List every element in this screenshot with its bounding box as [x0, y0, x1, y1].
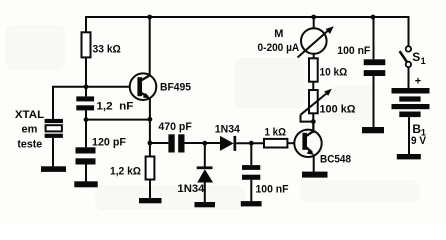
- svg-text:em: em: [22, 124, 38, 136]
- wire row to 470pF: [150, 142, 169, 144]
- svg-text:470 pF: 470 pF: [158, 121, 192, 133]
- transistor Q2 BC548: [294, 130, 321, 157]
- wire BF495 collector to rail: [149, 16, 151, 75]
- svg-text:BF495: BF495: [160, 82, 191, 94]
- ground (battery): [397, 154, 421, 159]
- wire shunt diode to ground: [204, 183, 206, 203]
- resistor 1 kΩ: [264, 139, 287, 148]
- svg-text:BC548: BC548: [320, 154, 351, 166]
- wire pot to BC548 collector: [312, 113, 314, 130]
- transistor Q1 BF495: [130, 73, 157, 100]
- potentiometer 100 kΩ: [301, 89, 332, 122]
- wire crystal to ground: [52, 138, 54, 167]
- wire base line: [53, 86, 130, 88]
- wire 1k to base BC548: [287, 142, 295, 144]
- wire 33k to base line: [85, 57, 87, 96]
- ground (decoupling cap): [362, 127, 384, 133]
- svg-text:1,2 kΩ: 1,2 kΩ: [110, 166, 141, 178]
- resistor 10 kΩ: [309, 58, 318, 81]
- wire top supply rail: [86, 16, 409, 18]
- svg-text:100 nF: 100 nF: [337, 45, 370, 57]
- battery B1 9V: [392, 76, 430, 118]
- svg-text:teste: teste: [17, 138, 42, 150]
- meter M 0-200 µA: [298, 26, 334, 57]
- wire switch to battery: [408, 67, 410, 88]
- wire diode to 1k row: [236, 142, 264, 144]
- svg-text:120 pF: 120 pF: [92, 136, 126, 148]
- svg-text:+: +: [415, 76, 421, 88]
- wire 10k to pot: [312, 82, 314, 90]
- node collector at rail: [147, 15, 152, 20]
- svg-text:9 V: 9 V: [411, 135, 427, 147]
- wire 1,2k drop: [149, 143, 151, 157]
- svg-text:1,2 nF: 1,2 nF: [96, 101, 133, 113]
- wire decoupling cap to ground: [373, 76, 375, 128]
- svg-text:33 kΩ: 33 kΩ: [93, 43, 121, 55]
- ground (XTAL): [41, 166, 66, 172]
- svg-text:1: 1: [421, 56, 426, 66]
- diode D1 1N34 series: [220, 136, 236, 151]
- wire rail corner to switch: [408, 16, 410, 46]
- capacitor 120 pF: [76, 147, 96, 164]
- wire 1,2k to ground: [149, 180, 151, 200]
- ground (1,2k): [139, 198, 162, 203]
- wire 33k column top: [85, 16, 87, 32]
- wire filter cap to ground: [250, 180, 252, 202]
- wire rail to decoupling cap: [373, 17, 375, 59]
- wire BF495 emitter down: [149, 98, 151, 143]
- resistor 1,2 kΩ: [146, 157, 155, 180]
- ground (shunt diode): [195, 202, 216, 207]
- node detector-row junction: [148, 141, 153, 146]
- wire BC548 collector up: [312, 122, 314, 133]
- ground (120pF): [74, 181, 97, 187]
- node decoupling cap at rail: [371, 15, 376, 20]
- crystal XTAL em teste: [45, 119, 63, 138]
- wire 470pF to diode: [185, 142, 221, 144]
- wire rail to meter: [313, 17, 315, 29]
- wire shunt diode drop: [204, 143, 206, 166]
- node emitter-row junction right: [148, 117, 153, 122]
- ground (BC548 emitter): [302, 172, 328, 178]
- svg-text:XTAL: XTAL: [15, 109, 45, 121]
- svg-text:1N34: 1N34: [177, 183, 205, 195]
- resistor 33 kΩ: [82, 32, 91, 57]
- node meter at rail: [311, 15, 316, 20]
- capacitor C decoupling 100 nF: [364, 59, 386, 76]
- node emitter-row junction left: [84, 117, 89, 122]
- node diode junction: [202, 141, 207, 146]
- wire BC548 emitter to ground: [313, 155, 315, 173]
- switch S1: [400, 46, 411, 67]
- wire 1,2nF to 120pF: [85, 110, 87, 147]
- svg-text:100 nF: 100 nF: [256, 183, 289, 195]
- wire filter cap drop: [250, 143, 252, 165]
- diode D2 1N34 shunt: [197, 166, 213, 182]
- node base-junction: [84, 84, 89, 89]
- capacitor C filter 100 nF: [242, 165, 260, 180]
- capacitor 1,2 nF: [76, 96, 94, 110]
- svg-text:M: M: [274, 28, 283, 40]
- svg-text:1N34: 1N34: [215, 123, 241, 135]
- svg-text:10 kΩ: 10 kΩ: [320, 67, 348, 79]
- wire XTAL drop: [52, 86, 54, 119]
- svg-text:0-200 µA: 0-200 µA: [258, 42, 300, 54]
- svg-text:1 kΩ: 1 kΩ: [265, 126, 287, 138]
- capacitor 470 pF: [168, 134, 184, 152]
- wire battery to ground: [408, 117, 410, 154]
- svg-text:S: S: [412, 50, 420, 64]
- wire meter to 10k: [313, 54, 315, 59]
- wire 120pF to ground: [85, 165, 87, 183]
- wire middle row: [86, 119, 150, 121]
- svg-text:100 kΩ: 100 kΩ: [320, 103, 356, 115]
- ground (filter cap): [241, 201, 262, 206]
- node 100nF junction: [249, 141, 254, 146]
- node pot wiper junction: [311, 119, 316, 124]
